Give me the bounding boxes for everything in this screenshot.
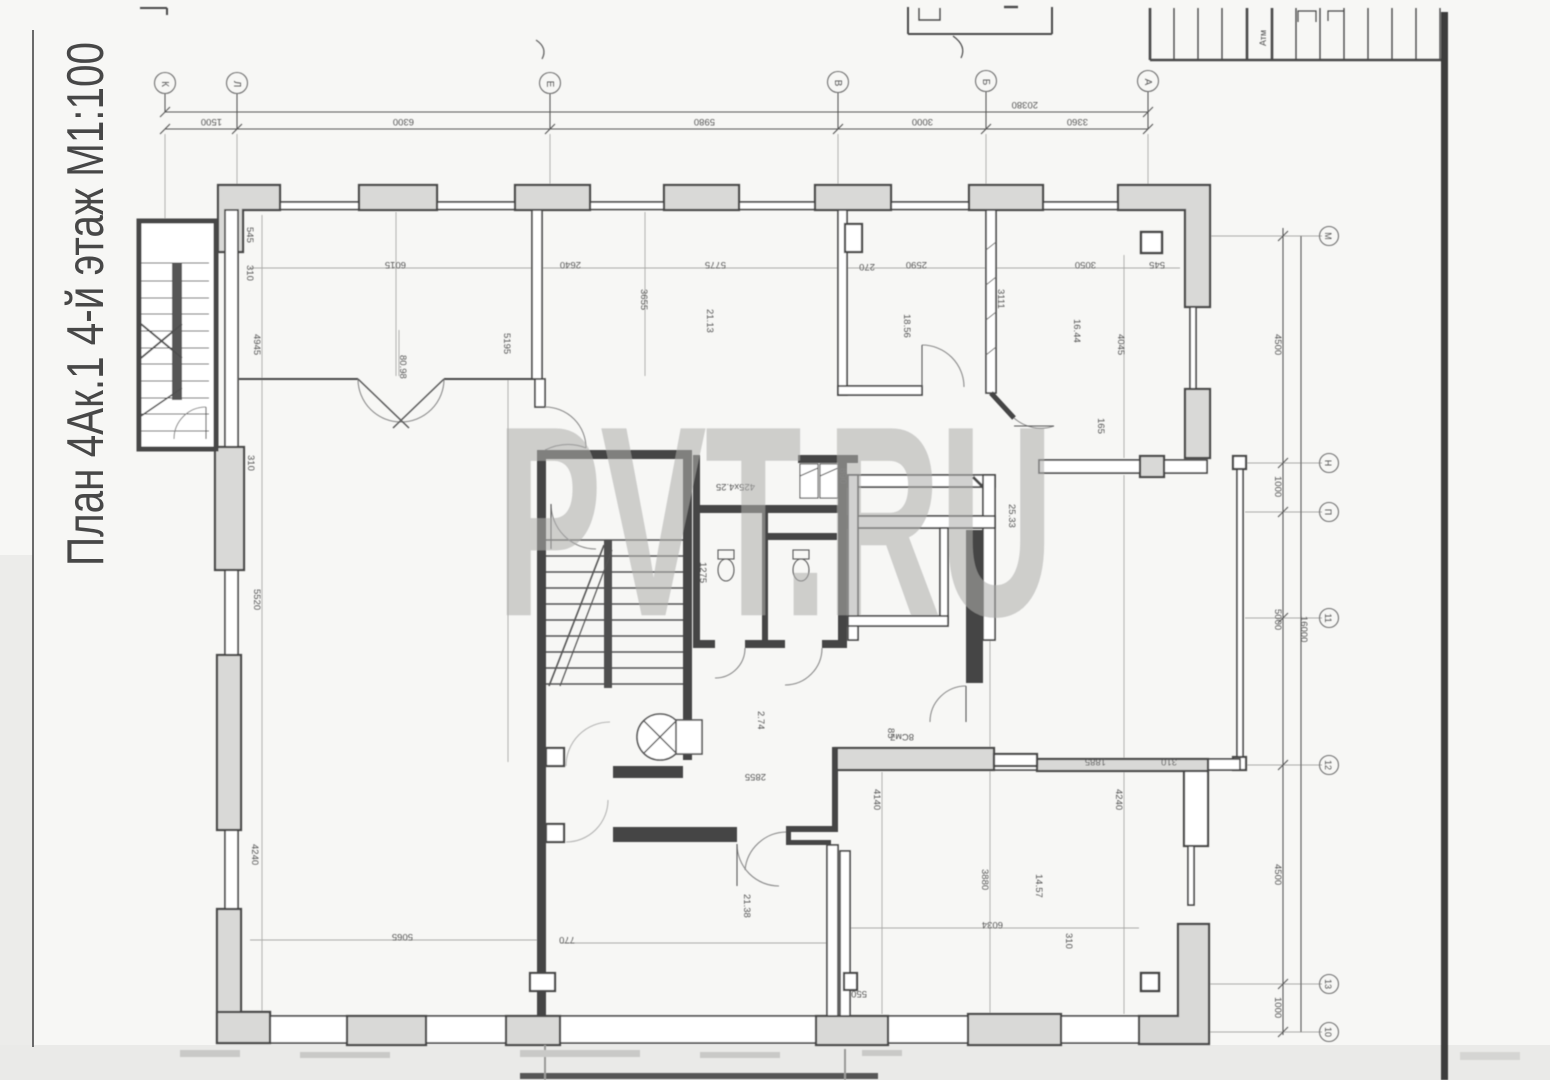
top-left room notch [845,224,862,252]
core room left wall [848,475,858,640]
terrace bottom wall [973,759,1240,770]
svg-text:А: А [1142,79,1153,86]
svg-text:4500: 4500 [1272,864,1283,885]
top-left corner pier [218,185,280,252]
svg-text:Б: Б [980,79,991,86]
svg-text:3000: 3000 [912,116,933,127]
svg-text:1885: 1885 [1085,756,1106,767]
stair landing door [551,504,596,549]
stair flight arrow [549,545,604,686]
svg-text:3111: 3111 [995,289,1006,309]
svg-text:10: 10 [1323,1027,1333,1037]
right sheet border [1441,12,1448,1080]
svg-text:14.57: 14.57 [1033,874,1044,898]
wc block left wall [693,455,700,645]
bottom faint smudges [180,1050,1520,1060]
wc shelf wall [763,533,837,540]
wc divider wall [762,513,768,645]
top-right corner pier [1118,185,1210,307]
svg-text:545: 545 [244,227,255,243]
svg-text:1000: 1000 [1272,997,1283,1018]
stair stringer [604,540,612,688]
svg-text:6300: 6300 [393,116,414,127]
svg-text:К: К [159,81,170,87]
grid bubble B [976,71,997,130]
toilet 1 [718,550,734,581]
svg-text:770: 770 [559,934,575,945]
diagonal door [1014,418,1054,428]
wc bottom wall segments [693,640,715,648]
hall wall with double door [239,378,358,380]
svg-text:6034: 6034 [982,919,1003,930]
bottom-middle room top wall [613,766,683,778]
corridor west wall lower [840,851,850,1016]
top wall piers [359,185,437,210]
annex stair stringer [172,263,182,400]
svg-text:3655: 3655 [638,289,649,310]
wall above shafts [798,455,858,463]
top-centre sheet fragment [908,7,1052,58]
bottom-middle room door [737,844,779,886]
terrace top wall [1039,460,1207,473]
svg-text:Атм: Атм [1258,30,1268,46]
annex door [174,407,206,439]
svg-text:PVT.RU: PVT.RU [497,371,1053,671]
svg-text:80.98: 80.98 [397,355,408,379]
svg-text:1500: 1500 [201,116,222,127]
right wall pier [1185,389,1210,458]
svg-text:Л: Л [231,81,242,88]
svg-text:5775: 5775 [705,259,726,270]
svg-text:П: П [1323,509,1333,515]
svg-text:4045: 4045 [1115,334,1126,355]
bottom-right corner pier [1139,924,1209,1044]
wc block mid wall [693,505,845,513]
svg-text:2.74: 2.74 [755,711,766,730]
svg-text:Е: Е [544,81,555,88]
double door leaves [358,379,401,422]
right grid bubbles [1320,227,1339,246]
svg-text:4945: 4945 [251,334,262,355]
stairwell top wall [537,450,692,459]
right window upper [1190,307,1196,389]
svg-text:12: 12 [1323,760,1333,770]
right window lower [1188,846,1194,905]
bottom-right room notch [844,973,857,990]
corridor door [930,686,966,722]
exterior left wall [225,210,238,1016]
svg-text:2590: 2590 [906,259,927,270]
wall jog [832,747,838,828]
stair south pier bump [530,973,555,991]
core room bottom wall [848,616,948,626]
svg-text:5980: 5980 [694,116,715,127]
svg-text:16.44: 16.44 [1071,319,1082,343]
grid bubble A [1138,71,1159,130]
interior dimension texts [244,227,1177,999]
svg-text:310: 310 [1161,756,1177,767]
svg-text:11: 11 [1323,613,1333,622]
svg-text:М: М [1323,232,1333,240]
bottom-right duct square [1141,973,1159,991]
exterior bottom wall [224,1016,1207,1043]
svg-text:В: В [832,80,843,87]
exterior top wall [218,202,1207,210]
bottom-left corner pier foot [217,1012,270,1043]
left margin tint [0,555,33,1080]
wall axis E upper [532,210,542,379]
core room right wall [983,475,995,640]
top-left room left wall [838,210,847,395]
svg-text:4140: 4140 [871,789,882,810]
top dimension chain total 20380 [160,99,1153,117]
top-left room bottom wall [838,386,922,395]
annex upper landing line [141,262,209,264]
svg-text:21.13: 21.13 [704,309,715,333]
left wall pier 2 [217,655,241,830]
balcony edge [1237,461,1243,768]
stair entry door [545,407,586,448]
corridor south wall west [835,748,994,770]
svg-text:13: 13 [1323,979,1333,989]
top-right adjacent sheet hatch [1150,8,1447,60]
svg-text:310: 310 [1063,933,1074,949]
toilet 2 [793,550,809,581]
corridor south wall east [1037,759,1208,771]
svg-text:8См7: 8См7 [890,731,914,742]
stairwell right wall [683,450,692,760]
right wall pier lower [1184,770,1208,846]
left border line [32,30,34,1047]
stairwell left wall [537,459,546,1016]
elevator symbol [637,714,683,760]
wc door arcs [715,648,745,678]
svg-text:310: 310 [244,265,255,281]
bottom-middle room east wall [827,845,838,1016]
grid bubble K [155,73,176,113]
svg-text:4240: 4240 [1113,789,1124,810]
svg-text:5195: 5195 [501,333,512,354]
bottom wall piers [347,1016,426,1045]
stair treads [546,540,683,684]
svg-text:5520: 5520 [251,589,262,610]
svg-text:21.38: 21.38 [741,894,752,918]
svg-text:3880: 3880 [979,869,990,890]
svg-text:3360: 3360 [1067,116,1088,127]
room divider wall [986,210,996,393]
svg-text:4240: 4240 [249,844,260,865]
core room chamfer [973,477,993,497]
faint extension lines [165,134,1322,1040]
svg-text:5065: 5065 [392,931,413,942]
svg-text:165: 165 [1095,418,1106,434]
door to bottom-middle room [745,832,786,870]
svg-text:Н: Н [1323,460,1333,467]
diagonal wall [991,393,1014,418]
svg-text:2855: 2855 [745,771,766,782]
svg-text:2640: 2640 [560,259,581,270]
scan streak below piers [544,1045,546,1080]
svg-text:5000: 5000 [1272,609,1283,630]
duct square top-right [1141,232,1162,253]
bottom-left corner pier [217,909,270,1043]
core room top wall [848,475,995,487]
top-left room door [922,345,964,387]
grid bubble V [828,72,849,130]
small arc fragment [536,40,544,59]
svg-text:16000: 16000 [1298,616,1309,642]
svg-text:20380: 20380 [1012,99,1038,110]
corridor east wall [966,530,983,683]
core room mid wall [848,516,995,528]
annex stair treads [141,281,209,431]
grid bubble L [227,73,248,130]
svg-text:3050: 3050 [1075,259,1096,270]
svg-text:4500: 4500 [1272,334,1283,355]
corridor wall step [994,754,1037,766]
svg-text:18.56: 18.56 [901,314,912,338]
top dimension chain segments [160,116,1153,134]
wall axis E link [535,379,545,407]
left wall pier 1 [215,447,244,570]
bottom scan artifact line [520,1073,878,1079]
svg-text:310: 310 [245,455,256,471]
core room divider [940,528,948,623]
svg-text:545: 545 [1149,259,1165,270]
annex stair arrows [141,324,182,358]
grid bubble E [540,73,561,130]
svg-text:План 4Ак.1 4-й этаж М1:100: План 4Ак.1 4-й этаж М1:100 [57,42,115,566]
duct shafts [800,464,838,498]
top-left sheet mark [140,8,167,15]
svg-text:270: 270 [859,261,875,272]
bottom scan band [0,1045,1550,1080]
svg-text:6015: 6015 [385,259,406,270]
svg-text:550: 550 [851,988,867,999]
wc block right wall [838,455,847,645]
right dimension chain [1272,228,1309,1037]
svg-text:1000: 1000 [1272,476,1283,497]
left stair annex outline [139,221,216,449]
